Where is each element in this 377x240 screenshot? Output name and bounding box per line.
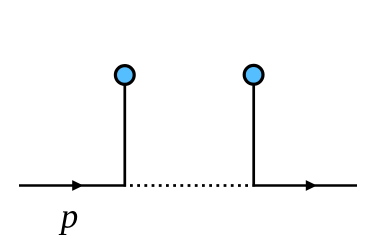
node: right source blob (blue circle) <box>244 65 263 84</box>
label p (momentum) <box>59 211 77 235</box>
arrowhead on incoming propagator <box>72 180 83 191</box>
wire: outgoing solid propagator <box>252 184 357 187</box>
wire: dotted propagator between vertices <box>130 184 252 187</box>
wire: incoming solid propagator <box>19 184 126 187</box>
node: left source blob (blue circle) <box>115 66 134 85</box>
wire: left vertical line to source <box>123 85 126 187</box>
arrowhead on outgoing propagator <box>306 180 317 191</box>
wire: right vertical line to source <box>252 85 255 187</box>
